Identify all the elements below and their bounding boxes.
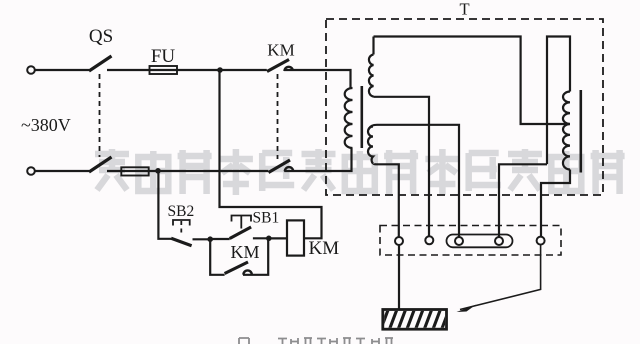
core bar right: [580, 90, 583, 173]
wire coil left to SB1 node: [269, 237, 287, 239]
pushbutton SB2 wire segments: [158, 171, 210, 239]
tap terminal c1: [395, 237, 403, 245]
fuse FU2 body: [121, 167, 148, 175]
tap link strap: [447, 235, 513, 248]
svg-text:SB2: SB2: [168, 203, 195, 220]
contact KM auxiliary fixed contact: [243, 270, 251, 274]
tap terminal c3: [455, 237, 463, 245]
node SB2-SB1 junction: [207, 236, 213, 242]
workpiece hatched block: [381, 309, 450, 330]
svg-text:KM: KM: [231, 242, 260, 262]
wire SB2 to SB1: [210, 238, 230, 240]
contact KM auxiliary blade: [225, 262, 248, 274]
winding W2 upper secondary section: [369, 55, 374, 97]
wire QS to FU: [107, 69, 267, 71]
wire W3 top to tap c3: [369, 125, 459, 237]
node SB1-coil junction: [266, 236, 272, 242]
contactor contact KM1 fixed contact: [285, 67, 293, 71]
svg-text:FU: FU: [151, 46, 176, 67]
wire tap c4 riser: [499, 164, 547, 237]
wire L1 to QS: [35, 69, 89, 71]
wire run A to right winding tap: [374, 37, 571, 125]
wire W3 bottom to tap c1: [374, 164, 399, 238]
svg-text:T: T: [459, 0, 469, 19]
watermark: [95, 149, 625, 195]
wire KM2 to transformer winding bottom: [284, 148, 351, 171]
svg-text:SB1: SB1: [253, 210, 280, 227]
pushbutton SB1 plunger: [232, 216, 252, 229]
tap terminal c2: [425, 236, 433, 244]
core bar left: [361, 86, 364, 148]
pushbutton SB2 plunger: [173, 220, 190, 226]
tap terminal c4: [495, 237, 503, 245]
svg-text:KM: KM: [267, 41, 294, 60]
wire KM1 to transformer: [284, 70, 351, 88]
wire L2 to QS: [35, 170, 89, 172]
wire electrode from c1: [398, 245, 400, 310]
contactor contact KM2 blade: [269, 160, 291, 173]
node junction phase1: [217, 67, 223, 73]
wire run B: [547, 37, 570, 165]
wire moving electrode from c5: [460, 245, 541, 310]
wire node to SB1 right contact: [253, 237, 269, 239]
arrow head: [457, 305, 477, 312]
pushbutton SB2 plunger stem dashed: [180, 221, 182, 236]
contactor contact KM2 fixed contact: [285, 167, 293, 171]
node junction phase2: [155, 168, 161, 174]
switch QS pole 1 blade: [89, 56, 112, 71]
pushbutton SB1 blade: [230, 227, 251, 239]
wire QS2 to FU2: [107, 170, 268, 172]
coil KM body: [287, 220, 304, 255]
svg-text:QS: QS: [89, 26, 113, 47]
wire W4 bottom to tap c5: [541, 170, 570, 237]
terminal L2: [27, 167, 35, 175]
svg-text:KM: KM: [309, 238, 340, 259]
switch QS pole 2 blade: [89, 157, 112, 172]
wire control feed from phase1 junction: [220, 70, 322, 238]
fuse FU1 body: [150, 66, 178, 74]
contactor KM linkage dashed: [277, 74, 279, 159]
winding W4 right: [563, 92, 570, 170]
tap changer dashed box: [380, 226, 561, 256]
wire W2 bottom to tap c2: [374, 97, 430, 237]
pushbutton SB2 blade: [171, 238, 192, 246]
transformer T dashed box: [326, 19, 603, 195]
switch QS linkage dashed: [99, 74, 101, 157]
svg-text:~380V: ~380V: [21, 115, 71, 135]
terminal L1: [27, 66, 35, 74]
winding W3 lower secondary section: [368, 127, 373, 164]
wire W2 top to run A: [372, 37, 374, 55]
winding W1 primary: [345, 88, 353, 148]
contactor contact KM1 blade: [267, 60, 289, 72]
caption bottom clipped: [239, 338, 393, 344]
tap terminal c5: [537, 237, 545, 245]
contact KM auxiliary branch wires: [210, 238, 268, 274]
